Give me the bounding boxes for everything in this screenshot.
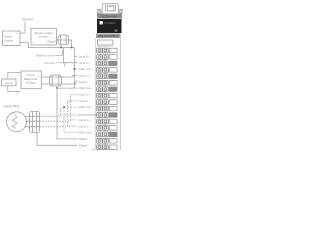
single-ended current transmitter [31, 28, 57, 45]
power supply PS1 [3, 31, 21, 46]
aux box 24V [2, 79, 16, 86]
svg-text:Input 3 +: Input 3 + [79, 118, 91, 122]
differential voltage transmitter [21, 71, 41, 89]
svg-text:3-wire RTD: 3-wire RTD [3, 104, 20, 108]
terminal row 13 [97, 132, 118, 137]
terminal row 14 [97, 138, 118, 143]
svg-text:Supply: Supply [4, 39, 14, 43]
wire loop top [8, 73, 21, 80]
terminal row 2 [97, 61, 118, 66]
junction dot A [60, 47, 62, 49]
svg-text:Input 2 +: Input 2 + [79, 93, 91, 97]
wire RTD joints [68, 120, 71, 127]
cable shield C1 [58, 35, 69, 45]
svg-text:3Q24-IN4: 3Q24-IN4 [102, 14, 117, 18]
wire ANL Com 2 leader [57, 87, 78, 89]
wire diff- to Input 1- [41, 82, 77, 84]
svg-text:+: + [16, 32, 18, 36]
terminal row 11 [97, 119, 118, 124]
RTD cable shield C3 [30, 112, 40, 133]
terminal block top box [98, 40, 114, 45]
svg-text:Shield: Shield [79, 143, 87, 147]
svg-text:+: + [38, 74, 40, 78]
svg-text:Signal: Signal [47, 40, 56, 44]
wire shield drain 2 [56, 86, 58, 88]
svg-text:Input 2 -: Input 2 - [79, 99, 90, 103]
svg-text:Input 1 +: Input 1 + [79, 74, 91, 78]
wire common jog [64, 47, 75, 49]
svg-text:Input 3 -: Input 3 - [79, 124, 90, 128]
RTD sensor circle [7, 112, 27, 132]
RTD dashed wires [40, 116, 71, 126]
RTD wires through cable [30, 116, 40, 126]
terminal row 6 [97, 87, 118, 92]
terminal row 4 [97, 74, 118, 79]
svg-text:ANL Com: ANL Com [79, 105, 92, 109]
junction dot ANL1 [74, 68, 76, 70]
svg-text:Input 1 -: Input 1 - [79, 80, 90, 84]
wire RTD shield drain to Shield row [37, 133, 78, 146]
terminal row 10 [97, 113, 118, 118]
jumper Input2- to Input3- [68, 101, 78, 126]
terminal row 1 [97, 55, 118, 60]
jumper ANLCom3 to ANLCom4 [64, 107, 78, 133]
svg-text:Input 0 -: Input 0 - [79, 61, 90, 65]
terminal row 5 [97, 80, 118, 85]
wire PS- to Input 0- [20, 43, 78, 63]
terminal row 0 [97, 48, 118, 53]
svg-text:ANL Com: ANL Com [79, 86, 92, 90]
wire common down to Input 0+ and ANL Com rows [74, 48, 77, 89]
terminal strip label [96, 34, 121, 39]
terminal row 7 [97, 93, 118, 98]
junction dot D [63, 106, 65, 108]
svg-text:ANL Com: ANL Com [79, 131, 92, 135]
svg-text:-: - [17, 42, 18, 46]
cable shield C2 [50, 75, 62, 86]
terminal row 8 [97, 100, 118, 105]
wire RTD sense to terminal row 10 [60, 115, 78, 116]
wire drain down to Shield row [57, 88, 78, 139]
module dark band [97, 19, 122, 33]
svg-text:+: + [33, 40, 35, 44]
wire loop bottom [8, 86, 21, 92]
jumper Input2+ to Input3+ [71, 94, 78, 120]
svg-text:Ground: Ground [44, 61, 54, 65]
module left edge [94, 38, 96, 150]
svg-text:Input 0 +: Input 0 + [79, 54, 91, 58]
svg-text:Shield: Shield [79, 137, 87, 141]
terminal row 9 [97, 106, 118, 111]
svg-text:Voltage: Voltage [26, 81, 36, 85]
svg-text:ANALOG.IN.INPUT: ANALOG.IN.INPUT [98, 34, 119, 38]
junction dot B [71, 47, 73, 49]
svg-text:current: current [39, 35, 49, 39]
wire diff+ to Input 1+ [41, 75, 77, 77]
terminal row 12 [97, 126, 118, 131]
svg-text:Ground: Ground [22, 18, 33, 22]
RTD lead wires [25, 116, 29, 126]
svg-text:POWER: POWER [105, 21, 116, 25]
wire shield drain 1 [60, 45, 62, 48]
svg-text:-: - [38, 85, 39, 89]
junction dot C [56, 87, 58, 89]
terminal row 15 [97, 145, 118, 150]
svg-text:ANL Com: ANL Com [79, 67, 92, 71]
terminal row 3 [97, 67, 118, 72]
module right edge [119, 38, 121, 150]
svg-text:Shield Ground: Shield Ground [36, 54, 55, 58]
svg-text:24V dc: 24V dc [5, 82, 14, 85]
module nameplate band [97, 14, 122, 19]
wire ground stub to PS+ [20, 22, 25, 34]
module top connector icon [97, 3, 123, 13]
wire signal out [57, 40, 72, 48]
wire RTD sense dashed up to ANL Com [60, 107, 62, 115]
